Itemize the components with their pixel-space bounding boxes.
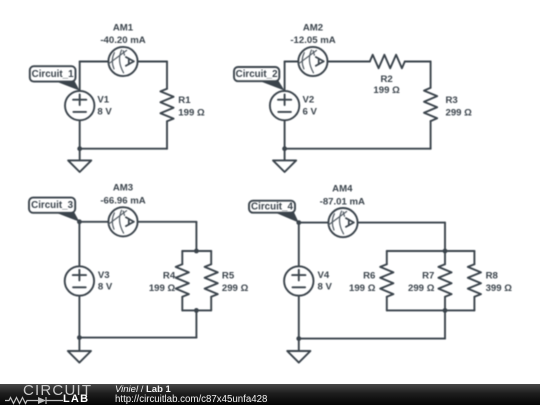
svg-text:AM1: AM1 (113, 22, 134, 33)
wire C4 parallel to bottom rail (444, 310, 446, 338)
CircuitLab logo text CIRCUIT (23, 382, 113, 399)
wire C3 parallel to bottom rail (195, 310, 197, 337)
wire C4 parallel top rail (387, 250, 475, 252)
svg-text:8 V: 8 V (98, 282, 113, 293)
wire C3 R5 bottom stub (210, 297, 212, 311)
resistor R4 (176, 264, 189, 297)
wire C1 ammeter right (138, 61, 167, 63)
junction C3 bottom (77, 335, 82, 340)
wire C1 V1 to bottom rail (79, 120, 81, 148)
svg-text:R4: R4 (163, 271, 176, 282)
wire C3 parallel bottom rail (182, 309, 211, 311)
wire C2 right vertical to R3 (430, 62, 432, 88)
svg-text:-87.01 mA: -87.01 mA (320, 196, 365, 207)
junction C2 bottom (282, 146, 287, 151)
ground C1 (68, 160, 91, 172)
svg-text:299 Ω: 299 Ω (446, 108, 473, 119)
svg-text:-40.20 mA: -40.20 mA (100, 35, 145, 46)
wire C4 ammeter right (358, 222, 445, 224)
svg-text:299 Ω: 299 Ω (408, 283, 435, 294)
svg-text:R3: R3 (446, 95, 458, 106)
resistor R7 (438, 264, 451, 297)
resistor R1 (160, 89, 173, 122)
ammeter AM3 (108, 207, 137, 236)
svg-text:R5: R5 (222, 271, 235, 282)
footer bar (0, 384, 540, 405)
net flag Circuit_3 (29, 198, 79, 222)
svg-text:V3: V3 (98, 270, 110, 281)
resistor R8 (468, 264, 481, 297)
footer url line (115, 394, 267, 405)
svg-text:8 V: 8 V (318, 282, 333, 293)
wire C2 bottom rail (285, 148, 431, 150)
voltage source V4 (284, 266, 313, 295)
logo text LAB (63, 393, 89, 405)
svg-text:V2: V2 (303, 95, 315, 106)
wire C4 R6 top stub (386, 251, 388, 264)
wire C3 left vertical to V3 (78, 222, 80, 266)
ammeter AM4 (328, 208, 357, 237)
wire C3 ammeter left (79, 221, 108, 223)
svg-text:199 Ω: 199 Ω (178, 108, 205, 119)
wire C3 R4 top stub (181, 251, 183, 264)
resistor R3 (424, 88, 437, 121)
wire C3 parallel top rail (182, 250, 211, 252)
wire C4 parallel bottom rail (387, 309, 475, 311)
wire C1 bottom rail (80, 148, 167, 150)
junction C4 parallel bottom (443, 308, 448, 313)
svg-text:299 Ω: 299 Ω (222, 283, 249, 294)
wire C4 down to parallel top (444, 223, 446, 251)
wire C2 ammeter left (285, 61, 299, 63)
junction C3 parallel bottom (194, 308, 199, 313)
svg-text:6 V: 6 V (303, 106, 318, 117)
svg-text:Circuit_4: Circuit_4 (251, 202, 293, 213)
junction C1 bottom (77, 146, 82, 151)
svg-text:199 Ω: 199 Ω (349, 283, 376, 294)
wire C4 left vertical to V4 (298, 223, 300, 267)
svg-text:R7: R7 (422, 271, 434, 282)
wire C3 R4 bottom stub (181, 297, 183, 311)
wire C2 left vertical to V2 (284, 62, 286, 92)
wire C1 right vertical to R1 (166, 62, 168, 89)
wire C4 ammeter left (299, 222, 329, 224)
wire C1 ground stem (79, 149, 81, 161)
svg-text:V4: V4 (318, 270, 330, 281)
wire C3 bottom rail (79, 337, 196, 339)
svg-text:399 Ω: 399 Ω (486, 283, 513, 294)
wire C2 ground stem (284, 149, 286, 161)
wire C4 R8 bottom stub (473, 297, 475, 311)
wire C4 ground stem (298, 339, 300, 351)
svg-text:AM4: AM4 (332, 183, 353, 194)
footer title line (115, 384, 171, 395)
junction C4 bottom (296, 336, 301, 341)
wire C3 down to parallel top (195, 222, 197, 251)
voltage source V3 (65, 266, 94, 295)
resistor R6 (380, 264, 393, 297)
svg-text:AM2: AM2 (303, 22, 323, 33)
ammeter AM1 (108, 47, 137, 76)
wire C4 R7 top stub (444, 251, 446, 264)
wire C4 R7 bottom stub (444, 297, 446, 311)
net flag Circuit_1 (30, 66, 80, 90)
wire C4 R6 bottom stub (386, 297, 388, 311)
svg-text:R1: R1 (178, 95, 191, 106)
wire C1 R1 to bottom rail (166, 121, 168, 148)
junction C4 parallel top (443, 249, 448, 254)
svg-text:R2: R2 (380, 74, 392, 85)
wire C1 ammeter left (80, 61, 109, 63)
wire C4 V4 to bottom rail (298, 296, 300, 339)
CircuitLab logo wire graphic (resistor + diode) (5, 396, 65, 405)
svg-text:8 V: 8 V (97, 106, 112, 117)
ammeter AM2 (298, 47, 327, 76)
wire C4 R8 top stub (473, 251, 475, 264)
ground C3 (68, 351, 91, 363)
svg-text:199 Ω: 199 Ω (149, 283, 176, 294)
junction C3 parallel top (194, 249, 199, 254)
svg-text:Circuit_2: Circuit_2 (236, 69, 278, 80)
resistor R2 (370, 55, 405, 69)
ground C4 (287, 351, 310, 363)
junction C3 top (77, 219, 82, 224)
wire C3 V3 to bottom rail (78, 296, 80, 338)
svg-text:V1: V1 (97, 95, 109, 106)
junction C4 top (296, 220, 301, 225)
ground C2 (273, 160, 296, 172)
net flag Circuit_4 (249, 201, 299, 223)
svg-text:AM3: AM3 (113, 183, 133, 194)
voltage source V1 (65, 91, 94, 120)
svg-text:Circuit_3: Circuit_3 (31, 200, 73, 211)
voltage source V2 (270, 91, 299, 120)
wire C1 left vertical to V1 (79, 62, 81, 92)
wire C4 bottom rail (299, 338, 445, 340)
svg-text:R8: R8 (486, 271, 499, 282)
wire C2 R3 to bottom rail (430, 121, 432, 149)
svg-text:Circuit_1: Circuit_1 (32, 69, 74, 80)
svg-text:-66.96 mA: -66.96 mA (100, 196, 145, 207)
svg-text:199 Ω: 199 Ω (373, 85, 400, 96)
wire C3 R5 top stub (210, 251, 212, 264)
wire C2 V2 to bottom rail (284, 120, 286, 148)
wire C2 ammeter right (328, 61, 370, 63)
wire C2 R2 to corner (405, 61, 431, 63)
svg-text:R6: R6 (363, 271, 375, 282)
net flag Circuit_2 (234, 67, 285, 91)
wire C3 ground stem (78, 338, 80, 351)
wire C3 ammeter right (138, 221, 197, 223)
svg-text:-12.05 mA: -12.05 mA (290, 35, 335, 46)
resistor R5 (205, 264, 218, 297)
